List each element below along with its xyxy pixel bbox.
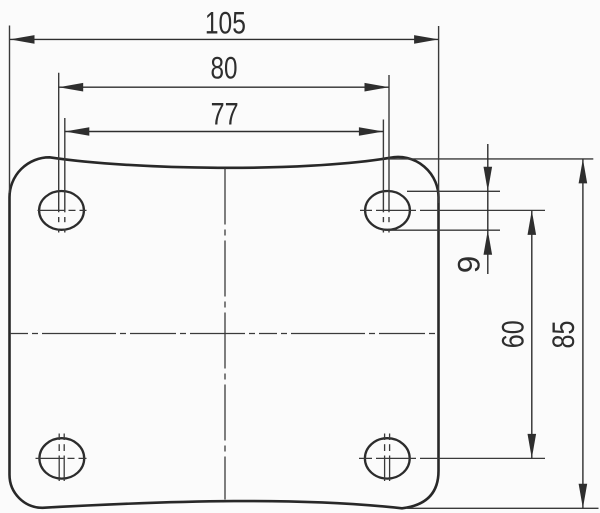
- svg-text:9: 9: [451, 256, 487, 274]
- crosshair horizontal, bottom-left hole: [36, 457, 89, 459]
- horizontal centerline of plate: [10, 333, 439, 335]
- dimension line 80: [59, 83, 389, 92]
- hole bottom-left: [39, 438, 84, 478]
- hole top-left: [39, 191, 84, 230]
- center-mark dashes, bottom-left hole: [59, 434, 64, 482]
- dimension line 105: [10, 35, 439, 44]
- hole bottom-right: [365, 438, 410, 478]
- svg-text:60: 60: [495, 320, 531, 348]
- svg-text:105: 105: [205, 5, 246, 41]
- svg-text:77: 77: [211, 96, 239, 132]
- plate outline: [10, 157, 439, 508]
- centerline top-right hole (horizontal, extends right): [360, 209, 545, 211]
- extension line, left edge (105): [9, 26, 11, 194]
- dimension line 9 (hole diameter, outside arrows): [484, 144, 493, 274]
- crosshair horizontal, top-left hole: [38, 209, 87, 211]
- svg-text:85: 85: [545, 321, 581, 349]
- vertical centerline of plate: [224, 169, 226, 500]
- extension line, 77 right (through top-right hole): [382, 120, 384, 233]
- centerline bottom-right hole (horizontal, extends right): [359, 457, 545, 459]
- extension line, bottom edge (85): [406, 507, 599, 509]
- extension line, 77 left (through top-left hole): [64, 118, 66, 233]
- extension line, 80 left (through top-left hole): [58, 73, 60, 233]
- extension line, right edge (105): [438, 26, 440, 203]
- svg-text:80: 80: [211, 50, 238, 86]
- extension line, hole bottom tangent (9): [385, 229, 500, 231]
- hole top-right: [365, 191, 410, 230]
- dimension line 85: [579, 159, 588, 508]
- center-mark dashes, bottom-right hole: [385, 434, 390, 482]
- extension line, 80 right (through top-right hole): [388, 75, 390, 233]
- dimension line 60: [528, 210, 537, 458]
- extension line, top edge (85): [388, 158, 593, 160]
- dimension line 77: [65, 127, 384, 136]
- extension line, hole top tangent (9): [407, 190, 500, 192]
